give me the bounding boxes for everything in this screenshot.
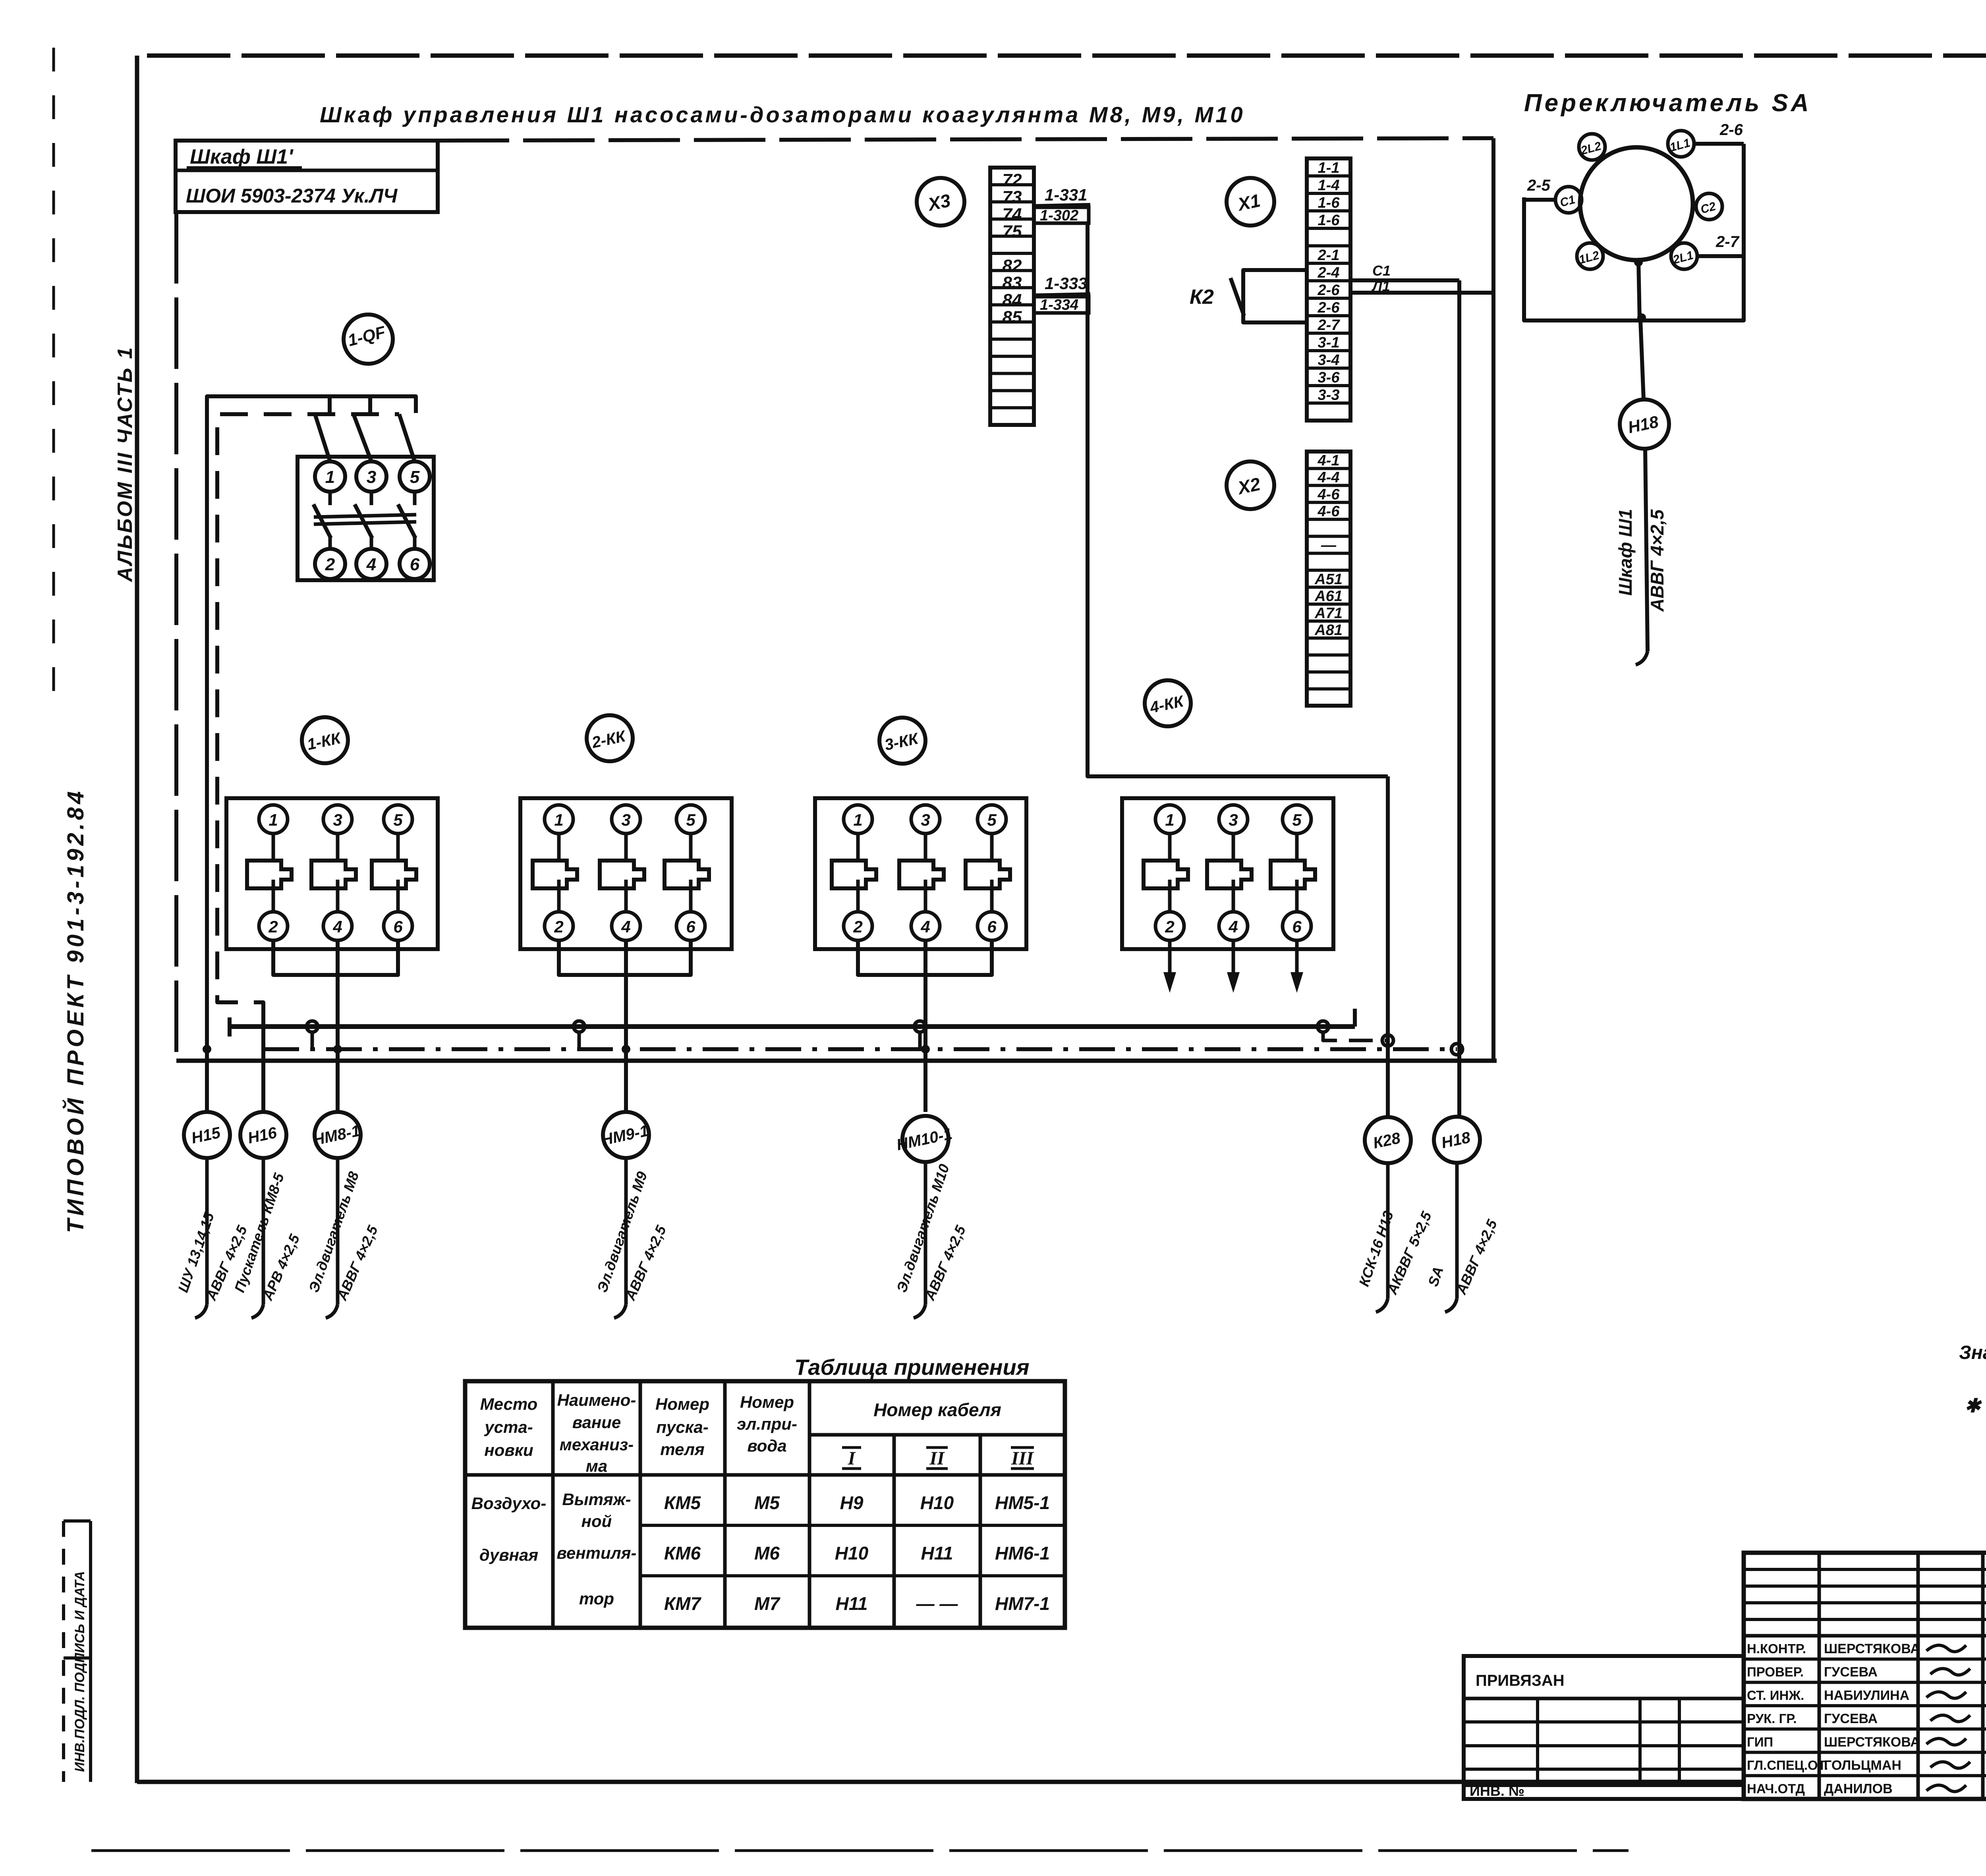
terminal strip X1 label circle [1227, 178, 1274, 226]
bus junction dot H15 [203, 1045, 211, 1054]
title block top small rows [1744, 1568, 1986, 1571]
svg-text:Н16: Н16 [246, 1124, 279, 1147]
svg-text:3-4: 3-4 [1318, 352, 1340, 369]
4-KK terminal 6 [1283, 912, 1311, 940]
svg-text:2-КК: 2-КК [590, 727, 628, 751]
svg-text:1-302: 1-302 [1040, 207, 1078, 224]
wire - H16 lead solid part [261, 1002, 265, 1112]
svg-text:ИНВ. №: ИНВ. № [1470, 1783, 1524, 1799]
2-KK terminal 3 [612, 805, 640, 834]
svg-text:4: 4 [621, 917, 630, 936]
svg-text:Шкаф управления Ш1 насосами-: Шкаф управления Ш1 насосами-дозаторами к… [320, 102, 1245, 127]
svg-text:КМ6: КМ6 [664, 1543, 701, 1563]
svg-text:3-КК: 3-КК [883, 730, 920, 754]
svg-text:2: 2 [325, 555, 335, 574]
bus N2 dash-dot [263, 1047, 1457, 1051]
1-QF pole 5-6 contact [413, 492, 417, 505]
svg-text:3-6: 3-6 [1318, 369, 1340, 386]
cable Н16 lead [262, 1158, 265, 1305]
svg-text:3: 3 [621, 811, 630, 829]
bus junction dot NM9 [622, 1045, 630, 1054]
3-KK terminal 6 [978, 912, 1006, 940]
thermal relay block 3-KK box [815, 798, 1026, 949]
1-KK bottom jumper U [273, 940, 398, 975]
svg-text:НМ7-1: НМ7-1 [995, 1593, 1050, 1614]
1-KK heater element 1 [272, 834, 275, 861]
cable H18 SA lead [1645, 449, 1648, 651]
svg-text:Н.КОНТР.: Н.КОНТР. [1747, 1641, 1806, 1656]
thermal relay label circle 2-KK [587, 715, 633, 761]
svg-text:ма: ма [586, 1457, 607, 1475]
svg-text:—: — [1321, 537, 1337, 554]
svg-text:Таблица применения: Таблица применения [794, 1355, 1030, 1380]
svg-text:РУК. ГР.: РУК. ГР. [1747, 1711, 1797, 1726]
svg-text:ПРИВЯЗАН: ПРИВЯЗАН [1476, 1672, 1565, 1689]
2-KK terminal 4 [612, 912, 640, 940]
3-KK terminal 2 [844, 912, 872, 940]
terminal strip X3 label circle [917, 178, 964, 226]
wire - feed diagonal to pole 1 [315, 414, 330, 461]
svg-text:1: 1 [269, 811, 278, 829]
svg-text:1-6: 1-6 [1318, 195, 1340, 211]
svg-text:ПРОВЕР.: ПРОВЕР. [1747, 1665, 1804, 1679]
wire - phase feed from H15 up to QF area [207, 396, 416, 1112]
svg-text:А81: А81 [1314, 622, 1343, 639]
svg-text:Шкаф Ш1': Шкаф Ш1' [190, 145, 294, 168]
privyazan box [1464, 1656, 1744, 1799]
svg-text:1L2: 1L2 [1577, 249, 1601, 266]
svg-text:3: 3 [367, 467, 376, 487]
svg-text:Н15: Н15 [190, 1124, 222, 1147]
left margin dashed line [52, 48, 55, 699]
1-QF pole 3-4 contact [370, 492, 373, 505]
wire - feed diagonal to pole 3 [354, 414, 371, 461]
cable НМ8-1 lead [336, 1158, 340, 1305]
bus junction 3 [914, 1021, 925, 1032]
terminal strip X2 label circle [1227, 461, 1274, 509]
svg-text:4: 4 [366, 555, 376, 574]
cable НМ10-1 lead [924, 1162, 927, 1305]
4-KK terminal 4 [1219, 912, 1248, 940]
cable circle НМ8-1 [315, 1112, 361, 1158]
svg-text:74: 74 [1003, 205, 1022, 224]
cable circle Н15 [184, 1112, 230, 1158]
svg-text:АВВГ 4×2,5: АВВГ 4×2,5 [1647, 509, 1667, 612]
2-KK terminal 6 [676, 912, 705, 940]
svg-text:1-QF: 1-QF [346, 322, 388, 350]
terminal strip X1 [1307, 158, 1350, 421]
svg-text:пуска-: пуска- [656, 1418, 709, 1436]
svg-text:Номер: Номер [740, 1393, 794, 1411]
svg-text:вентиля-: вентиля- [557, 1544, 637, 1562]
svg-text:3: 3 [921, 811, 930, 829]
svg-text:ГОЛЬЦМАН: ГОЛЬЦМАН [1824, 1758, 1901, 1773]
1-KK terminal 6 [384, 912, 412, 940]
svg-text:ШЕРСТЯКОВА: ШЕРСТЯКОВА [1824, 1735, 1920, 1750]
1-QF pin 6 [400, 549, 430, 579]
svg-text:АВВГ 4×2,5: АВВГ 4×2,5 [1453, 1217, 1500, 1297]
2-KK terminal 1 [545, 805, 573, 834]
svg-text:ДАНИЛОВ: ДАНИЛОВ [1824, 1781, 1893, 1796]
svg-text:4-6: 4-6 [1318, 503, 1340, 520]
left margin stamp box [62, 1521, 65, 1782]
wire - feed stub 1 [328, 396, 332, 414]
svg-text:Номер: Номер [655, 1395, 709, 1413]
svg-text:2: 2 [1165, 917, 1174, 936]
cable Н15 lead [205, 1158, 209, 1305]
title block signature column lines [1818, 1553, 1821, 1799]
junction circle H18 tap [1451, 1044, 1462, 1055]
svg-text:82: 82 [1003, 256, 1022, 276]
svg-text:1L1: 1L1 [1668, 136, 1691, 154]
4-KK terminal 5 [1283, 805, 1311, 834]
svg-text:1: 1 [1165, 811, 1174, 829]
svg-text:X2: X2 [1235, 473, 1262, 498]
terminal strip X2 [1307, 452, 1350, 706]
1-QF pole 1-2 contact [328, 492, 332, 505]
4-KK terminal 2 [1155, 912, 1184, 940]
terminal strip X3 [990, 168, 1034, 425]
1-QF pin 2 [315, 549, 345, 579]
svg-text:1-334: 1-334 [1040, 297, 1078, 313]
thermal relay block 1-KK box [226, 798, 438, 949]
SA wire 2-5 left [1524, 198, 1555, 202]
svg-text:4: 4 [1228, 917, 1238, 936]
svg-text:Л1: Л1 [1371, 278, 1390, 294]
svg-text:ной: ной [582, 1512, 612, 1531]
wire - feed diagonal to pole 5 [399, 414, 415, 461]
sheet frame bottom edge [137, 1780, 1745, 1784]
1-KK terminal 2 [259, 912, 288, 940]
svg-text:НМ8-1: НМ8-1 [311, 1122, 362, 1149]
svg-text:II: II [929, 1448, 945, 1469]
svg-text:1-333: 1-333 [1045, 274, 1087, 293]
svg-text:Переключатель SA: Переключатель SA [1524, 89, 1812, 117]
1-KK terminal 1 [259, 805, 288, 834]
svg-text:1: 1 [853, 811, 862, 829]
svg-text:АЛЬБОМ III ЧАСТЬ 1: АЛЬБОМ III ЧАСТЬ 1 [114, 346, 137, 583]
thermal relay block 2-KK box [520, 798, 732, 949]
switch SA enclosure [1524, 144, 1744, 320]
svg-text:АВВГ 3×4+1×2,5: АВВГ 3×4+1×2,5 [1983, 1084, 1986, 1216]
svg-text:Н11: Н11 [921, 1543, 953, 1563]
cable circle К28 [1365, 1117, 1411, 1163]
2-KK heater element 2 [624, 834, 628, 861]
svg-text:4-4: 4-4 [1318, 469, 1340, 486]
svg-text:I: I [848, 1448, 856, 1469]
wire - feed stub 2 [368, 396, 372, 414]
outer bottom cut line [91, 1849, 1629, 1852]
svg-text:Н18: Н18 [1626, 412, 1660, 437]
thermal relay block 4-KK box [1122, 798, 1333, 949]
title block signature rows [1744, 1658, 1986, 1661]
bus junction dot NM8 [333, 1045, 342, 1054]
1-QF linkage bar [314, 515, 416, 517]
2-KK heater element 1 [557, 834, 561, 861]
sheet frame top edge [147, 54, 1986, 58]
cabinet Sh1 right boundary [1491, 138, 1495, 1061]
bus junction 2 [574, 1021, 585, 1032]
svg-text:2-1: 2-1 [1318, 247, 1340, 264]
svg-text:уста-: уста- [484, 1418, 533, 1436]
svg-text:НМ5-1: НМ5-1 [995, 1492, 1050, 1513]
svg-text:4-6: 4-6 [1318, 486, 1340, 503]
svg-text:Наимено-: Наимено- [557, 1391, 636, 1409]
svg-text:С1: С1 [1559, 193, 1577, 210]
application table header underline [465, 1473, 1065, 1477]
wire - from 1-302 terminal down to K28 tap [1088, 223, 1388, 776]
svg-text:ГУСЕВА: ГУСЕВА [1824, 1711, 1878, 1726]
svg-text:2-7: 2-7 [1716, 233, 1740, 251]
svg-text:2L1: 2L1 [1671, 249, 1694, 267]
1-QF pin 3 [356, 461, 386, 492]
svg-text:5: 5 [410, 467, 420, 487]
wire L1 from X1 to cabinet edge [1350, 291, 1491, 295]
svg-text:1-1: 1-1 [1318, 160, 1340, 176]
svg-text:4-1: 4-1 [1318, 452, 1340, 469]
2-KK terminal 5 [676, 805, 705, 834]
svg-text:Н10: Н10 [835, 1543, 869, 1563]
svg-text:3: 3 [333, 811, 342, 829]
SA terminal C1 [1555, 187, 1582, 213]
1-QF pin 4 [356, 549, 386, 579]
svg-text:83: 83 [1003, 273, 1022, 293]
4-KK outgoing arrow at x=3265 [1295, 940, 1299, 981]
3-KK heater element 1 [856, 834, 860, 861]
svg-text:2-6: 2-6 [1318, 282, 1340, 299]
wire SA to H18 cable [1640, 320, 1644, 400]
1-KK heater element 3 [396, 834, 400, 861]
contact K2 [1243, 270, 1307, 322]
svg-text:НМ6-1: НМ6-1 [995, 1543, 1050, 1563]
4-KK heater element 1 [1168, 834, 1172, 861]
svg-text:дувная: дувная [479, 1546, 538, 1564]
svg-text:1: 1 [325, 467, 335, 487]
cable Н18 lead [1455, 1163, 1459, 1299]
svg-text:2-5: 2-5 [1527, 177, 1551, 194]
svg-text:6: 6 [393, 917, 403, 936]
SA terminal 1L1 [1668, 131, 1694, 157]
svg-text:ГЛ.СПЕЦ.ОТ.: ГЛ.СПЕЦ.ОТ. [1747, 1758, 1828, 1773]
cabinet Sh1 top boundary [438, 138, 1493, 141]
svg-text:6: 6 [686, 917, 695, 936]
cable НМ9-1 lead [624, 1158, 628, 1305]
svg-text:2-6: 2-6 [1318, 299, 1340, 316]
svg-text:С2: С2 [1699, 200, 1717, 216]
1-QF pin 1 [315, 461, 345, 492]
svg-text:2L2: 2L2 [1579, 139, 1603, 158]
svg-text:вание: вание [572, 1413, 621, 1432]
svg-text:М5: М5 [754, 1492, 780, 1513]
svg-text:2-6: 2-6 [1719, 121, 1743, 139]
svg-text:Н10: Н10 [920, 1492, 954, 1513]
1-KK heater element 2 [336, 834, 340, 861]
wire - motor cable drop from 1-KK pole 4 [336, 940, 340, 1112]
svg-text:НМ9-1: НМ9-1 [600, 1122, 650, 1149]
wire K28 riser [1386, 776, 1390, 1118]
svg-text:теля: теля [660, 1440, 705, 1459]
svg-text:ГУСЕВА: ГУСЕВА [1824, 1665, 1878, 1680]
4-KK outgoing arrow at x=2945 [1168, 940, 1172, 981]
circuit breaker 1-QF box [298, 457, 434, 580]
title block outer box [1744, 1553, 1986, 1799]
SA terminal 2L2 [1579, 134, 1605, 160]
svg-text:— —: — — [916, 1593, 958, 1614]
svg-text:М6: М6 [754, 1543, 780, 1563]
svg-text:С1: С1 [1372, 262, 1391, 279]
svg-text:6: 6 [987, 917, 997, 936]
SA terminal C2 [1696, 193, 1722, 220]
cable circle H18 (SA) [1620, 400, 1669, 449]
3-KK terminal 3 [911, 805, 940, 834]
svg-text:3-3: 3-3 [1318, 387, 1340, 403]
X3 wire label 1-302 box [1034, 207, 1089, 223]
svg-text:2-7: 2-7 [1318, 317, 1341, 334]
svg-text:84: 84 [1003, 290, 1022, 310]
svg-text:X1: X1 [1235, 190, 1262, 215]
svg-text:Н11: Н11 [836, 1593, 868, 1614]
application table cable header split [809, 1433, 1065, 1437]
cabinet Sh1 bottom boundary [176, 1059, 1497, 1063]
svg-text:75: 75 [1003, 222, 1022, 241]
cable К28 lead [1386, 1163, 1390, 1299]
svg-text:5: 5 [987, 811, 997, 829]
svg-text:Вытяж-: Вытяж- [562, 1490, 631, 1509]
svg-text:Знак: Знак [1959, 1342, 1986, 1363]
SA center tap wire [1638, 260, 1640, 320]
svg-text:механиз-: механиз- [560, 1435, 634, 1454]
svg-text:Воздухо-: Воздухо- [471, 1494, 547, 1513]
svg-text:3: 3 [1229, 811, 1238, 829]
3-KK heater element 2 [924, 834, 927, 861]
wire - motor cable drop from 3-KK pole 4 [923, 940, 927, 1112]
thermal relay label circle 3-KK [879, 718, 925, 764]
svg-text:SA: SA [1425, 1264, 1447, 1289]
cable circle НМ10-1 [902, 1116, 949, 1162]
1-KK terminal 4 [323, 912, 352, 940]
svg-text:III: III [1011, 1448, 1034, 1469]
svg-text:73: 73 [1003, 187, 1022, 207]
svg-text:72: 72 [1003, 170, 1022, 190]
svg-text:1: 1 [554, 811, 563, 829]
svg-text:1-331: 1-331 [1045, 185, 1087, 204]
thermal relay label circle 1-KK [302, 717, 348, 763]
svg-text:НАЧ.ОТД: НАЧ.ОТД [1747, 1781, 1805, 1796]
switch SA body circle [1580, 147, 1693, 260]
svg-text:КМ7: КМ7 [664, 1593, 702, 1614]
svg-text:1-6: 1-6 [1318, 212, 1340, 229]
svg-text:ШОИ 5903-2374 Ук.ЛЧ: ШОИ 5903-2374 Ук.ЛЧ [186, 185, 398, 207]
SA wire 2-6 top right [1694, 142, 1744, 146]
wire - motor cable drop from 2-KK pole 4 [624, 940, 628, 1112]
svg-text:Место: Место [480, 1395, 538, 1413]
svg-text:ИНВ.ПОДЛ. ПОДПИСЬ И ДАТА: ИНВ.ПОДЛ. ПОДПИСЬ И ДАТА [72, 1571, 87, 1772]
X3 wire label 1-334 box [1034, 297, 1089, 313]
svg-text:5: 5 [1292, 811, 1302, 829]
SA wire 2-7 right [1697, 256, 1744, 320]
svg-text:СТ. ИНЖ.: СТ. ИНЖ. [1747, 1688, 1804, 1702]
svg-text:✱ домаркировать: ✱ домаркировать [1965, 1395, 1986, 1417]
svg-text:М7: М7 [754, 1593, 780, 1614]
SA terminal 1L2 [1577, 243, 1603, 269]
svg-text:эл.при-: эл.при- [737, 1415, 797, 1433]
3-KK terminal 5 [978, 805, 1006, 834]
svg-text:1-4: 1-4 [1318, 177, 1340, 194]
application table outer box [465, 1381, 1065, 1628]
svg-text:ГИП: ГИП [1747, 1735, 1773, 1749]
application table row lines [640, 1524, 1065, 1527]
svg-text:К28: К28 [1372, 1129, 1402, 1152]
svg-text:85: 85 [1003, 308, 1022, 327]
svg-text:4: 4 [920, 917, 930, 936]
svg-text:Шкаф Ш1: Шкаф Ш1 [1615, 509, 1636, 596]
4-KK terminal 1 [1155, 805, 1184, 834]
thermal relay label circle 4-KK [1145, 680, 1191, 726]
2-KK heater element 3 [689, 834, 693, 861]
3-KK heater element 3 [990, 834, 994, 861]
cabinet Sh1 label box [176, 141, 438, 212]
4-KK terminal 3 [1219, 805, 1248, 834]
svg-text:5: 5 [393, 811, 403, 829]
svg-text:1-КК: 1-КК [305, 729, 343, 753]
wire - neutral feed from H16 dashed [217, 414, 399, 1021]
svg-text:6: 6 [410, 555, 420, 574]
svg-text:КМ5: КМ5 [664, 1492, 701, 1513]
circuit breaker label circle 1-QF [344, 315, 393, 364]
svg-text:тор: тор [579, 1589, 614, 1608]
svg-text:К2: К2 [1190, 286, 1214, 309]
svg-text:новки: новки [484, 1441, 533, 1459]
svg-text:А71: А71 [1314, 605, 1343, 621]
svg-text:5: 5 [686, 811, 695, 829]
svg-text:2: 2 [554, 917, 563, 936]
4-KK outgoing arrow at x=3105 [1232, 940, 1235, 981]
3-KK bottom jumper U [858, 940, 992, 975]
svg-text:2: 2 [853, 917, 862, 936]
svg-text:6: 6 [1292, 917, 1302, 936]
svg-text:2: 2 [268, 917, 278, 936]
svg-text:вода: вода [747, 1436, 786, 1455]
bus junction 1 [307, 1021, 318, 1032]
1-KK terminal 3 [323, 805, 352, 834]
svg-text:ШЕРСТЯКОВА: ШЕРСТЯКОВА [1824, 1641, 1920, 1656]
bus junction dot NM10 [921, 1045, 930, 1054]
SA terminal 2L1 [1671, 243, 1697, 269]
4-KK heater element 3 [1295, 834, 1299, 861]
svg-text:X3: X3 [925, 190, 952, 215]
cable circle Н16 [240, 1112, 286, 1158]
svg-text:А51: А51 [1314, 571, 1343, 588]
svg-text:4-КК: 4-КК [1148, 692, 1186, 716]
2-KK bottom jumper U [559, 940, 691, 975]
svg-text:Номер кабеля: Номер кабеля [873, 1399, 1001, 1420]
svg-text:НАБИУЛИНА: НАБИУЛИНА [1824, 1688, 1909, 1703]
sheet frame left edge [135, 56, 139, 1783]
cable circle НМ9-1 [603, 1112, 649, 1158]
3-KK terminal 1 [844, 805, 872, 834]
svg-text:2-4: 2-4 [1318, 264, 1340, 281]
svg-text:А61: А61 [1314, 588, 1343, 605]
svg-text:4: 4 [332, 917, 342, 936]
svg-text:Н18: Н18 [1440, 1129, 1472, 1152]
1-QF pin 5 [400, 461, 430, 492]
cable circle Н18 [1434, 1117, 1480, 1163]
wire C1 from X1 to H18 drop [1350, 278, 1459, 282]
svg-text:Н9: Н9 [840, 1492, 864, 1513]
1-KK terminal 5 [384, 805, 412, 834]
svg-text:АРВ 4×2,5: АРВ 4×2,5 [259, 1231, 303, 1303]
bus junction 4 [1318, 1021, 1329, 1032]
